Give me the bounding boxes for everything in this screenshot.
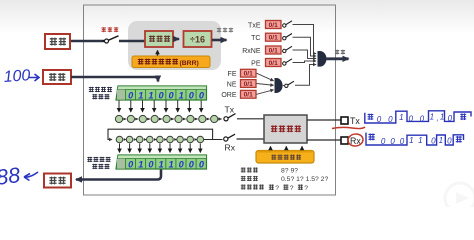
wire TX shift out to Tx switch [218,118,222,120]
svg-text:0: 0 [189,90,195,100]
svg-text:0: 0 [189,159,195,169]
RX data register (RDR) with bits 01011000 [116,155,207,170]
divider box 分频器 [145,31,173,47]
arrows RX shift down into RDR [120,144,201,153]
BRR register box 波特率寄存器(BRR) [132,56,210,68]
svg-text:0: 0 [408,114,413,123]
svg-text:÷16: ÷16 [190,34,205,44]
wire control to Tx pad [307,119,341,121]
svg-text:?: ? [304,185,308,192]
svg-text:100: 100 [3,67,31,86]
svg-text:0: 0 [199,90,205,100]
RX data register label 接收数据寄存器 [87,157,110,169]
svg-text:1: 1 [138,159,143,169]
wire TC to OR gate [293,37,317,56]
Tx switch [224,114,264,121]
status flag RxNE [242,46,292,55]
wire send to TX register [71,77,158,82]
Rx pad square [341,137,348,144]
RX loop wire from Rx switch over to left end [108,129,213,139]
svg-text:0: 0 [447,137,452,146]
USART block outer border [84,5,336,195]
svg-text:0/1: 0/1 [269,48,278,55]
error flag ORE [221,90,256,99]
svg-text:PE: PE [251,60,261,67]
baud-rate generator grey container [128,21,221,70]
watermark play logo bottom right [445,183,474,213]
arrows frame format to control [270,147,272,151]
TX shift register circles [115,115,217,122]
wire control to Rx pad [307,139,341,141]
wire clock to divider [70,40,103,43]
Tx waveform handwritten [365,111,471,123]
svg-text:Rx: Rx [225,143,236,153]
svg-text:8? 9?: 8? 9? [281,168,298,175]
receive box 接收 [44,174,71,188]
svg-text:0: 0 [158,90,164,100]
svg-text:1: 1 [440,112,444,121]
error flag NE [227,80,256,89]
Rx waveform handwritten [366,133,464,145]
svg-text:FE: FE [228,71,237,78]
baud rate output arrow [212,39,227,42]
status flag TC [251,33,292,42]
svg-text:88: 88 [0,163,21,190]
status flag TxE [248,21,292,30]
svg-text:1: 1 [148,90,153,100]
svg-text:0: 0 [128,160,134,170]
svg-text:(BRR): (BRR) [180,60,199,67]
svg-text:0/1: 0/1 [269,60,278,67]
Tx pad square [341,117,348,124]
svg-text:TC: TC [251,35,260,42]
label 总开关 [101,27,118,32]
Rx switch [224,134,264,141]
error OR gate [275,78,283,93]
wires FE NE ORE to error OR gate [257,73,274,81]
svg-text:0/1: 0/1 [244,92,253,99]
RX shift register circles [116,136,222,143]
svg-text:0: 0 [420,114,425,123]
svg-text:0: 0 [431,137,436,146]
svg-text:Tx: Tx [350,116,360,126]
div-by-16 box ÷16 [184,31,212,47]
svg-text:1: 1 [399,113,403,122]
svg-text:0: 0 [179,159,185,169]
svg-text:0/1: 0/1 [269,35,278,42]
TX data register (TDR) with bits 01100100 [116,86,207,101]
background top gradient band [0,0,474,34]
svg-text:0: 0 [390,137,395,146]
停 stop label Tx [460,113,466,120]
svg-text:0: 0 [400,137,405,146]
svg-text:RxNE: RxNE [242,48,261,55]
svg-text:0: 0 [128,91,134,101]
起 start label Tx [368,114,374,120]
svg-text:0: 0 [377,115,382,124]
arrows TDR down to TX shift register [119,101,201,112]
svg-text:1: 1 [418,136,422,145]
svg-text:0: 0 [448,114,453,123]
svg-text:Tx: Tx [225,105,235,115]
svg-text:0: 0 [199,159,205,169]
svg-text:0: 0 [388,115,393,124]
label 波特率 [217,28,233,33]
text line data bits 数据位 8? 9? [241,167,298,174]
interrupt output arrow 中断 [327,57,349,60]
switch 总开关 (master enable) [102,36,145,43]
svg-text:NE: NE [227,81,237,88]
svg-text:?: ? [290,185,294,192]
handwritten arrow from receive [24,172,38,181]
wire RDR to receive box [76,170,161,180]
svg-text:0/1: 0/1 [244,71,253,78]
error flag FE [228,69,256,78]
svg-text:0/1: 0/1 [244,81,253,88]
svg-text:1: 1 [169,159,174,169]
svg-text:0: 0 [381,137,386,146]
svg-text:1: 1 [439,136,443,145]
svg-text:1: 1 [158,159,163,169]
wire RxNE to OR gate [293,50,317,59]
wire PE to OR gate [293,61,317,63]
svg-text:0: 0 [169,90,175,100]
起 start label Rx [368,133,374,140]
main interrupt OR gate [318,51,327,67]
arrow BRR up to divider [157,51,159,56]
red circle around Rx [347,133,364,147]
svg-text:1: 1 [179,90,184,100]
svg-text:ORE: ORE [221,92,237,99]
handwritten arrow to send [29,74,39,81]
svg-text:0/1: 0/1 [269,22,278,29]
clock box 时钟 [45,34,70,49]
svg-text:,: , [436,113,438,122]
停 stop label Rx [456,136,462,143]
svg-text:1: 1 [409,136,413,145]
status flag PE [251,59,292,68]
frame format box 数据帧格式 [256,151,314,164]
svg-text:0: 0 [148,159,154,169]
send box 发送 [43,70,71,84]
svg-text:?: ? [275,185,279,192]
svg-text:1: 1 [430,112,434,121]
svg-text:0.5? 1? 1.5? 2?: 0.5? 1? 1.5? 2? [281,176,328,183]
text line stop bits 停止位 0.5? 1? 1.5? 2? [241,176,329,183]
svg-text:TxE: TxE [248,22,261,29]
arrow divider to div16 [174,38,179,40]
text line parity 校验方式 奇?偶?无? [241,184,308,191]
red underline under Tx [332,127,365,129]
error interrupt enable switch [283,65,316,88]
TX data register label 发送数据寄存器 [89,87,112,100]
wire TxE to OR gate [293,25,317,54]
control circuit box 控制电路 [264,115,307,143]
svg-text:1: 1 [138,90,143,100]
